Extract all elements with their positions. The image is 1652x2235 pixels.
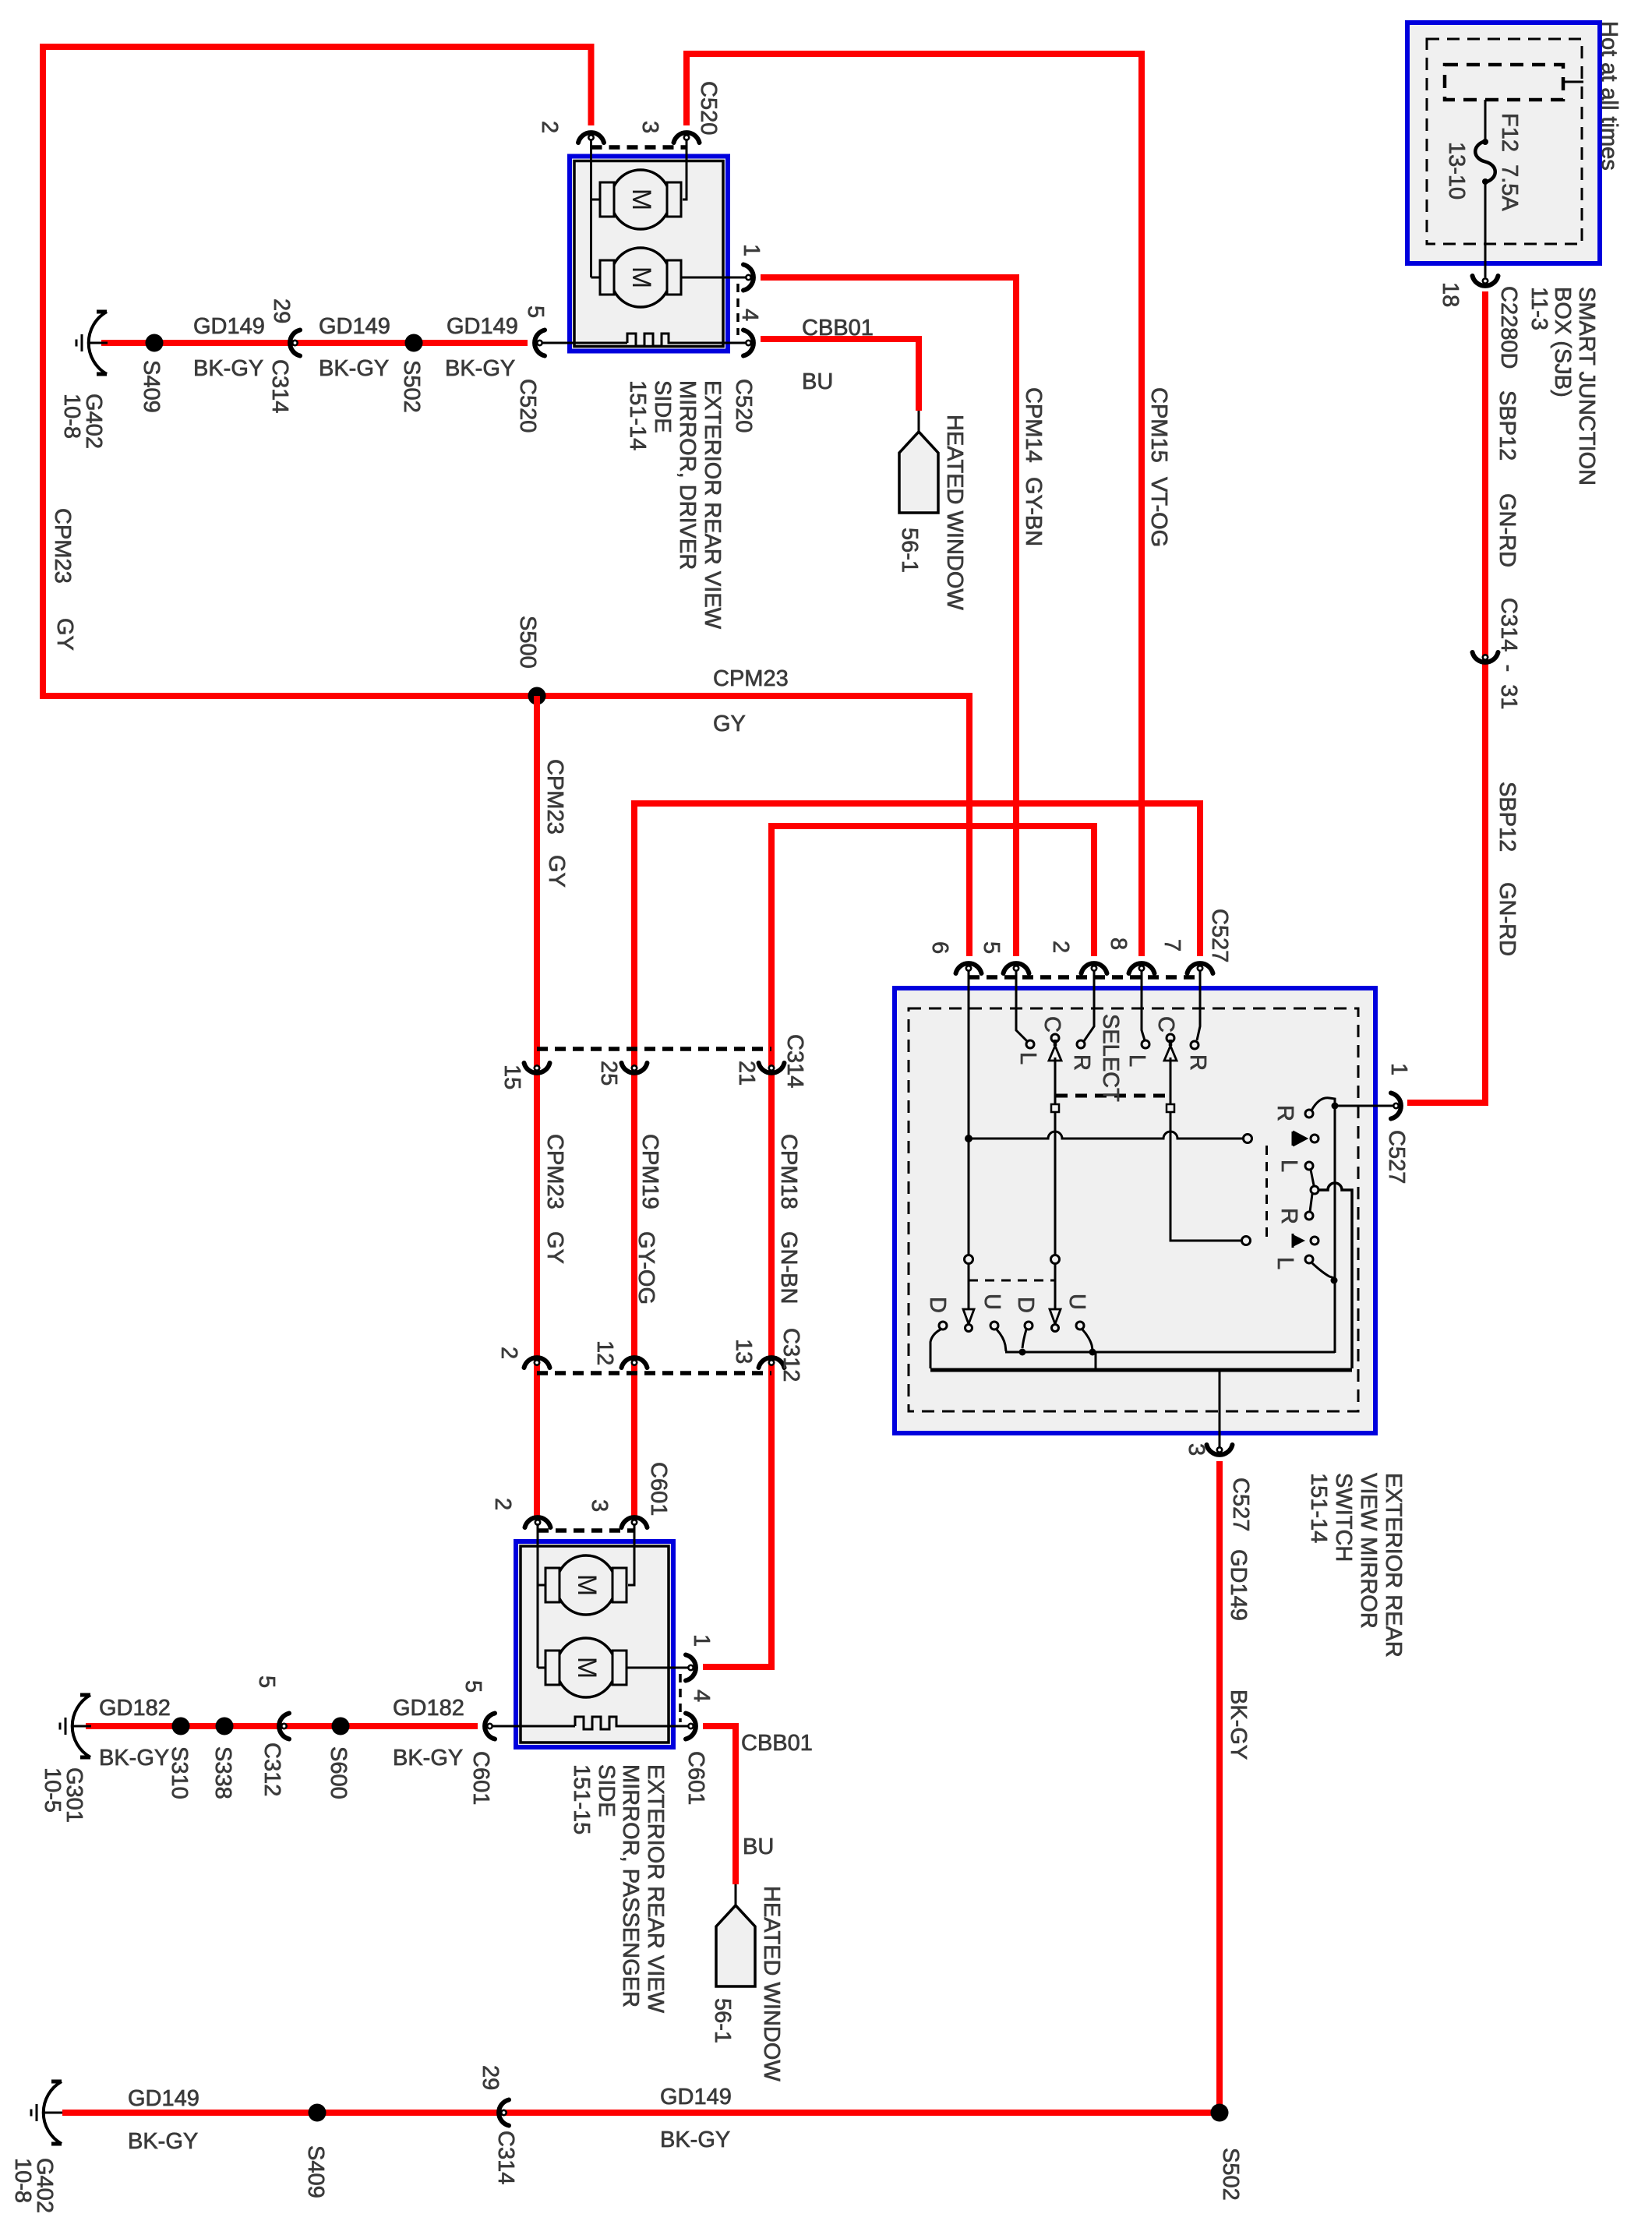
svg-text:56-1: 56-1 — [897, 528, 922, 573]
svg-text:R: R — [1069, 1054, 1094, 1071]
svg-text:BK-GY: BK-GY — [660, 2127, 730, 2152]
splice S310 — [172, 1718, 190, 1735]
svg-text:CPM14: CPM14 — [1021, 387, 1046, 463]
svg-text:GD149: GD149 — [128, 2086, 199, 2111]
svg-text:CPM23: CPM23 — [50, 508, 75, 584]
fuse cavity dashed box — [1445, 65, 1563, 100]
motor M (driver horizontal) — [591, 199, 601, 201]
svg-text:BK-GY: BK-GY — [99, 1746, 169, 1771]
svg-text:VT-OG: VT-OG — [1146, 477, 1171, 547]
svg-text:C: C — [1040, 1016, 1064, 1033]
svg-text:R: R — [1185, 1054, 1210, 1071]
C314 pin 21 — [759, 1063, 785, 1073]
svg-text:4: 4 — [737, 309, 762, 321]
splice S600 — [332, 1718, 350, 1735]
contact L upper with pivot — [1305, 1162, 1313, 1170]
svg-text:GD149: GD149 — [447, 314, 518, 339]
svg-text:C601: C601 — [468, 1751, 493, 1805]
splice S409 (bottom) — [309, 2104, 327, 2122]
svg-text:BU: BU — [802, 369, 833, 394]
heater element wire pins 5-4 — [541, 334, 748, 346]
svg-text:5: 5 — [523, 305, 548, 318]
svg-text:13: 13 — [731, 1339, 756, 1364]
wire CPM23 GY from S500 down to passenger mirror pin 2 — [534, 696, 540, 1517]
svg-text:3: 3 — [637, 121, 662, 133]
svg-text:MIRROR, DRIVER: MIRROR, DRIVER — [675, 380, 700, 570]
switch inner dashed boundary — [909, 1008, 1358, 1411]
svg-text:R: R — [1273, 1105, 1297, 1121]
svg-text:1: 1 — [739, 244, 764, 256]
svg-text:29: 29 — [269, 298, 294, 323]
C312 pin 2 — [524, 1358, 550, 1368]
splice S409 — [146, 334, 164, 352]
ground G402 10-8 — [76, 312, 108, 374]
svg-text:GD149: GD149 — [1226, 1549, 1251, 1621]
wire CPM15 VT-OG from driver mirror pin 3 to switch pin 8 — [687, 54, 1142, 956]
svg-text:C312: C312 — [259, 1742, 284, 1796]
splice S502 (bottom) — [1211, 2104, 1229, 2122]
svg-text:10-5: 10-5 — [40, 1767, 65, 1813]
svg-text:2: 2 — [537, 121, 562, 133]
svg-text:S500: S500 — [515, 616, 540, 669]
svg-text:15: 15 — [499, 1065, 524, 1089]
svg-text:F12 7.5A: F12 7.5A — [1497, 113, 1522, 211]
connector C314 dashed row — [537, 1047, 771, 1051]
svg-text:S600: S600 — [326, 1746, 351, 1799]
svg-text:11-3: 11-3 — [1527, 287, 1551, 330]
svg-text:C314: C314 — [267, 359, 292, 413]
svg-text:HEATED WINDOW: HEATED WINDOW — [759, 1886, 784, 2081]
svg-text:C520: C520 — [515, 379, 540, 433]
connector C601 dashed (pins 1,4) — [679, 1674, 682, 1722]
svg-text:BK-GY: BK-GY — [1226, 1689, 1251, 1760]
svg-text:L: L — [1273, 1257, 1297, 1269]
svg-text:GN-RD: GN-RD — [1495, 882, 1520, 956]
contact R upper — [1305, 1110, 1313, 1117]
switch pin 6 — [956, 963, 982, 973]
select contact group right (pins 8,7) — [1142, 970, 1145, 1040]
svg-text:L: L — [1276, 1160, 1301, 1172]
svg-text:5: 5 — [254, 1675, 279, 1688]
svg-text:C520: C520 — [731, 379, 756, 433]
svg-text:C527: C527 — [1384, 1130, 1409, 1184]
svg-text:EXTERIOR REAR: EXTERIOR REAR — [1381, 1473, 1406, 1658]
C312 pin 13 — [759, 1358, 785, 1368]
svg-text:D: D — [1013, 1297, 1038, 1313]
contact R lower — [1305, 1212, 1313, 1220]
svg-text:C314: C314 — [782, 1034, 807, 1088]
switch common rail lower — [1170, 1112, 1241, 1241]
svg-text:3: 3 — [587, 1499, 612, 1512]
svg-text:GY: GY — [713, 711, 746, 736]
pin 3 lead — [1219, 1370, 1221, 1448]
connector C520 dashed (pins 2,3) — [591, 145, 687, 150]
ground bus thick — [930, 1368, 1352, 1372]
svg-text:C527: C527 — [1228, 1478, 1253, 1531]
pin 5 — [535, 330, 545, 356]
svg-text:GY-OG: GY-OG — [634, 1231, 658, 1305]
svg-text:SELECT: SELECT — [1098, 1014, 1123, 1102]
svg-text:GY: GY — [542, 1231, 567, 1264]
C314 pin 15 — [524, 1063, 550, 1073]
svg-text:25: 25 — [596, 1061, 621, 1086]
plunger linkage dashed — [969, 1280, 1055, 1282]
svg-text:GN-BN: GN-BN — [776, 1231, 801, 1304]
svg-text:VIEW MIRROR: VIEW MIRROR — [1356, 1473, 1381, 1629]
wiper lower right — [1292, 1234, 1294, 1248]
svg-text:C601: C601 — [683, 1751, 708, 1805]
connector C314 pin 29 in-line — [290, 330, 300, 356]
svg-text:BK-GY: BK-GY — [445, 356, 515, 381]
pin 2 — [578, 132, 604, 143]
svg-text:3: 3 — [1184, 1443, 1209, 1456]
exterior rear view mirror switch 151-14 — [895, 988, 1375, 1433]
svg-text:SBP12: SBP12 — [1495, 782, 1520, 852]
C312 pin 12 — [622, 1358, 648, 1368]
pivot rail to bus — [1318, 1183, 1352, 1368]
svg-text:BOX (SJB): BOX (SJB) — [1550, 287, 1575, 397]
SJB inner dashed boundary — [1427, 39, 1582, 244]
svg-text:L: L — [1015, 1052, 1040, 1065]
heated window 56-1 off-page connector (driver) — [918, 411, 920, 432]
wiper upper right — [1293, 1132, 1306, 1146]
wire CBB01 BU driver heated window feed — [761, 339, 919, 411]
motor M (passenger vertical) — [537, 1524, 539, 1668]
svg-text:C601: C601 — [646, 1462, 671, 1516]
svg-text:SWITCH: SWITCH — [1331, 1473, 1356, 1562]
switch pin 2 — [1082, 963, 1107, 973]
svg-text:CPM19: CPM19 — [637, 1134, 662, 1209]
switch pin 5 — [1004, 963, 1029, 973]
heated window 56-1 off-page connector (passenger) — [735, 1884, 737, 1905]
wire SBP12 GN-RD from SJB to switch pin 1 — [1407, 291, 1485, 1103]
svg-text:C2280D: C2280D — [1496, 286, 1521, 369]
svg-text:S409: S409 — [303, 2145, 328, 2198]
svg-text:C314 - 31: C314 - 31 — [1496, 598, 1521, 709]
connector C312 dashed row — [537, 1371, 771, 1375]
pin 1 (passenger) — [686, 1655, 696, 1681]
smart junction box SJB — [1407, 23, 1600, 263]
svg-text:SMART JUNCTION: SMART JUNCTION — [1574, 287, 1599, 485]
svg-text:13-10: 13-10 — [1444, 142, 1469, 199]
pin 3 — [674, 132, 700, 143]
wire to pin 1 (passenger) — [627, 1667, 690, 1669]
svg-text:2: 2 — [490, 1498, 515, 1510]
contact D (left) — [939, 1322, 947, 1329]
collector line — [1005, 1351, 1335, 1354]
exterior rear view mirror passenger side 151-15 — [516, 1541, 673, 1747]
contact U (left) — [990, 1322, 998, 1329]
contact U (mid) — [1076, 1322, 1084, 1329]
svg-text:BK-GY: BK-GY — [193, 356, 263, 381]
svg-text:C314: C314 — [493, 2131, 518, 2184]
svg-text:151-14: 151-14 — [625, 380, 650, 450]
pin 4 (passenger) — [686, 1714, 696, 1739]
connector C314 pin 31 in-line — [1473, 652, 1498, 662]
switch common rail upper with hops — [969, 1132, 1243, 1139]
up-down plunger left (pin 6 line) — [968, 970, 970, 1139]
svg-text:5: 5 — [979, 941, 1004, 954]
svg-text:GD182: GD182 — [99, 1696, 171, 1721]
pin 1 wire — [1335, 1105, 1394, 1107]
wire CPM23 GY from driver mirror pin 2 to S500 to switch pin 6 — [43, 47, 969, 956]
heater element wire pins 5-4 (passenger) — [491, 1717, 690, 1729]
svg-text:R: R — [1276, 1208, 1301, 1224]
bus stub line — [1563, 81, 1583, 83]
fuse F12 7.5A — [1484, 100, 1487, 141]
svg-text:EXTERIOR REAR VIEW: EXTERIOR REAR VIEW — [643, 1764, 668, 2014]
linkage dashed right side — [1265, 1146, 1268, 1241]
svg-text:GN-RD: GN-RD — [1495, 493, 1520, 567]
switch pin 7 — [1188, 963, 1213, 973]
svg-text:EXTERIOR REAR VIEW: EXTERIOR REAR VIEW — [700, 380, 725, 630]
exterior rear view mirror driver side 151-14 — [570, 157, 728, 351]
splice S338 — [216, 1718, 234, 1735]
svg-text:BU: BU — [743, 1834, 774, 1859]
svg-text:SIDE: SIDE — [650, 380, 675, 433]
wire CPM14 GY-BN from driver mirror pin 1 to switch pin 5 — [761, 277, 1016, 956]
wire CBB01 BU passenger heated window feed — [703, 1726, 736, 1884]
svg-text:SIDE: SIDE — [594, 1764, 619, 1817]
svg-text:7: 7 — [1160, 939, 1184, 952]
connector C520 dashed (pins 1,4) — [736, 284, 740, 335]
svg-text:L: L — [1124, 1054, 1149, 1067]
wire CPM18 GN-BN switch pin 2 to passenger mirror pin 1 — [703, 826, 1094, 1667]
contact L lower — [1305, 1255, 1313, 1263]
svg-text:CPM15: CPM15 — [1146, 387, 1171, 463]
svg-text:CPM23: CPM23 — [542, 1134, 567, 1209]
svg-text:C527: C527 — [1207, 909, 1232, 962]
svg-text:CBB01: CBB01 — [741, 1731, 813, 1756]
splice S502 — [405, 334, 423, 352]
pin 4 — [743, 330, 754, 356]
wire to pin 1 — [681, 277, 748, 279]
svg-text:S338: S338 — [210, 1746, 235, 1799]
svg-text:1: 1 — [1386, 1063, 1411, 1075]
wire GD149 BK-GY switch ground to G402 — [62, 1461, 1220, 2113]
svg-text:C: C — [1153, 1016, 1178, 1033]
motor M (driver vertical) — [590, 139, 592, 277]
svg-text:MIRROR, PASSENGER: MIRROR, PASSENGER — [618, 1764, 643, 2007]
svg-text:BK-GY: BK-GY — [393, 1746, 463, 1771]
svg-text:CBB01: CBB01 — [802, 316, 874, 341]
svg-text:8: 8 — [1106, 937, 1131, 950]
svg-text:29: 29 — [478, 2065, 503, 2090]
svg-text:U: U — [1064, 1294, 1089, 1310]
switch pin 3 — [1207, 1445, 1233, 1455]
svg-text:CPM23: CPM23 — [713, 666, 789, 691]
motor M (passenger horizontal) — [538, 1584, 545, 1587]
C314 pin 25 — [622, 1063, 648, 1073]
svg-text:SBP12: SBP12 — [1495, 390, 1520, 461]
splice S500 — [528, 687, 546, 705]
svg-text:Hot at all times: Hot at all times — [1597, 21, 1622, 171]
svg-text:2: 2 — [496, 1347, 521, 1359]
svg-text:D: D — [925, 1297, 950, 1313]
svg-text:12: 12 — [592, 1340, 617, 1365]
wire CPM19 GY-OG switch pin 7 to passenger mirror pin 3 — [634, 803, 1200, 1517]
switch pin 1 — [1391, 1093, 1401, 1119]
svg-text:56-1: 56-1 — [710, 1998, 735, 2043]
switch pin 8 — [1129, 963, 1155, 973]
pin 5 (passenger) — [485, 1714, 495, 1739]
svg-text:C520: C520 — [696, 81, 721, 135]
svg-text:5: 5 — [461, 1680, 485, 1693]
pin 2 (passenger) — [525, 1517, 551, 1527]
connector C527 dashed top — [969, 975, 1200, 980]
svg-text:S502: S502 — [1218, 2148, 1243, 2201]
wire GD149 BK-GY driver mirror ground — [101, 340, 528, 346]
connector C312 pin 5 — [279, 1714, 289, 1739]
connector C314 pin 29 (bottom) — [499, 2100, 509, 2126]
svg-text:GY: GY — [544, 855, 569, 888]
pin 3 (passenger) — [622, 1517, 648, 1527]
svg-text:C312: C312 — [778, 1328, 803, 1382]
svg-text:BK-GY: BK-GY — [128, 2129, 198, 2154]
svg-text:S310: S310 — [167, 1746, 192, 1799]
svg-text:BK-GY: BK-GY — [319, 356, 389, 381]
svg-text:CPM23: CPM23 — [542, 759, 567, 835]
svg-text:18: 18 — [1438, 282, 1463, 307]
svg-text:151-14: 151-14 — [1306, 1473, 1331, 1543]
svg-text:2: 2 — [1048, 941, 1073, 953]
pin 1 — [743, 265, 754, 291]
svg-text:GD149: GD149 — [193, 314, 265, 339]
svg-text:1: 1 — [689, 1634, 714, 1647]
svg-text:10-8: 10-8 — [10, 2158, 35, 2203]
connector C601 dashed (pins 2,3) — [538, 1528, 634, 1533]
svg-text:GD182: GD182 — [393, 1696, 464, 1721]
svg-text:10-8: 10-8 — [59, 394, 84, 439]
svg-text:151-15: 151-15 — [569, 1764, 594, 1834]
common vertical to pin 1 junction — [1334, 1099, 1336, 1353]
wire GD182 BK-GY passenger mirror ground — [86, 1723, 478, 1729]
SELECT linkage dashed — [1056, 1094, 1167, 1098]
svg-text:U: U — [980, 1294, 1004, 1310]
svg-text:21: 21 — [734, 1061, 759, 1086]
up-down plunger mid (select pole) — [1054, 1112, 1057, 1255]
svg-text:GD149: GD149 — [319, 314, 390, 339]
select contact group left (pins 5,2) — [1016, 970, 1027, 1041]
svg-text:4: 4 — [689, 1689, 714, 1702]
ground G402 10-8 (bottom) — [31, 2081, 62, 2144]
svg-text:CPM18: CPM18 — [776, 1134, 801, 1209]
svg-text:GY-BN: GY-BN — [1021, 477, 1046, 546]
svg-text:GD149: GD149 — [660, 2085, 732, 2110]
svg-text:GY: GY — [52, 618, 77, 651]
svg-text:6: 6 — [927, 941, 952, 954]
ground G301 10-5 — [60, 1695, 91, 1757]
svg-text:S409: S409 — [139, 360, 164, 413]
svg-text:S502: S502 — [399, 360, 424, 413]
contact D (mid) — [1025, 1322, 1032, 1329]
svg-text:HEATED WINDOW: HEATED WINDOW — [942, 415, 967, 610]
connector C2280D pin 18 — [1473, 276, 1498, 286]
